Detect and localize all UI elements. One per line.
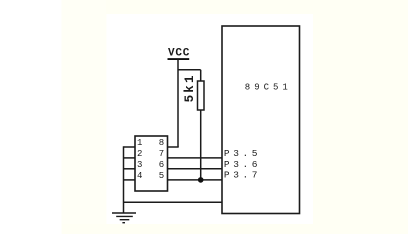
IC U2 89C51 body: [222, 26, 300, 214]
pin number 5: [159, 171, 164, 181]
wire ground bus to 89C51 GND horizontal: [124, 201, 223, 203]
svg-text:P3.7: P3.7: [224, 169, 261, 180]
cream page background right block: [313, 0, 408, 234]
svg-text:7: 7: [159, 149, 164, 159]
wire pin 6 to P3.6: [168, 168, 222, 170]
wire pin 1 stub to ground bus: [124, 146, 136, 148]
wire pin 2 stub to ground bus: [124, 157, 136, 159]
svg-text:6: 6: [159, 160, 164, 170]
wire pin 4 stub to ground bus: [124, 179, 136, 181]
wire VCC bar down to pin 8 vertical: [177, 59, 179, 147]
wire VCC branch to resistor top horizontal: [178, 69, 201, 71]
pin number 8: [159, 138, 164, 148]
VCC power symbol bar: [168, 58, 190, 60]
cream page background top strip: [62, 0, 408, 14]
cream page background vertical band: [62, 0, 107, 224]
svg-text:P3.5: P3.5: [224, 148, 261, 159]
wire pin 5 to P3.7: [168, 179, 222, 181]
svg-text:8: 8: [159, 138, 164, 148]
junction dot on P3.7 net: [198, 177, 204, 183]
pin number 7: [159, 149, 164, 159]
wire pin 8 stub to VCC vertical: [168, 146, 179, 148]
svg-text:5k1: 5k1: [183, 73, 197, 102]
wire pin 7 to P3.5: [168, 157, 222, 159]
pin label P3.6: [224, 159, 261, 170]
svg-text:89C51: 89C51: [245, 82, 292, 92]
pin number 6: [159, 160, 164, 170]
svg-text:1: 1: [137, 138, 142, 148]
pin label P3.5: [224, 148, 261, 159]
svg-text:2: 2: [137, 149, 142, 159]
pin number 2: [137, 149, 142, 159]
resistor R1 value label 5k1: [183, 73, 197, 102]
pin label P3.7: [224, 169, 261, 180]
pin number 1: [137, 138, 142, 148]
svg-text:P3.6: P3.6: [224, 159, 261, 170]
pin number 4: [137, 171, 142, 181]
IC U2 value label 89C51: [245, 82, 292, 92]
resistor R1 body: [198, 81, 205, 110]
VCC net label: [168, 48, 190, 60]
wire resistor bottom lead down to P3.7 net: [200, 110, 202, 180]
svg-text:VCC: VCC: [168, 48, 190, 60]
wire resistor top lead: [200, 70, 202, 81]
ground symbol: [112, 213, 136, 223]
svg-text:3: 3: [137, 160, 142, 170]
pin number 3: [137, 160, 142, 170]
wire pin 3 stub to ground bus: [124, 168, 136, 170]
cream page background bottom strip: [62, 224, 408, 234]
svg-text:4: 4: [137, 171, 142, 181]
connector S1 (8-pin DIP box): [135, 136, 168, 191]
svg-text:5: 5: [159, 171, 164, 181]
wire ground bus vertical: [123, 146, 125, 213]
